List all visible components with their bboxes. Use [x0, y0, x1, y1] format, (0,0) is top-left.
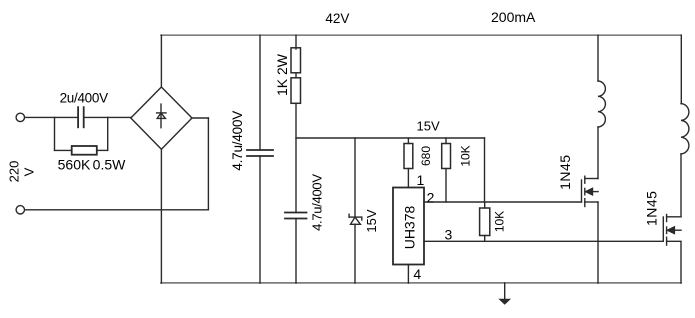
- svg-text:1: 1: [417, 172, 425, 188]
- svg-text:4.7u/400V: 4.7u/400V: [310, 174, 325, 231]
- svg-text:4: 4: [413, 266, 421, 282]
- svg-text:1K 2W: 1K 2W: [274, 53, 290, 96]
- svg-text:2u/400V: 2u/400V: [60, 90, 108, 105]
- svg-text:3: 3: [445, 227, 453, 243]
- svg-text:1N45: 1N45: [557, 154, 573, 189]
- svg-text:560K: 560K: [58, 157, 91, 173]
- svg-text:15V: 15V: [417, 118, 440, 133]
- svg-text:UH378: UH378: [402, 206, 418, 250]
- svg-text:15V: 15V: [364, 209, 379, 232]
- svg-text:V: V: [22, 167, 37, 176]
- svg-text:10K: 10K: [493, 211, 507, 232]
- svg-text:42V: 42V: [325, 11, 349, 26]
- svg-text:200mA: 200mA: [491, 9, 536, 25]
- svg-text:0.5W: 0.5W: [93, 157, 126, 173]
- svg-text:680: 680: [419, 146, 433, 166]
- svg-text:1N45: 1N45: [643, 191, 659, 226]
- svg-text:220: 220: [7, 161, 22, 183]
- svg-text:4.7u/400V: 4.7u/400V: [230, 111, 245, 171]
- svg-text:2: 2: [427, 189, 435, 205]
- svg-text:10K: 10K: [458, 145, 472, 166]
